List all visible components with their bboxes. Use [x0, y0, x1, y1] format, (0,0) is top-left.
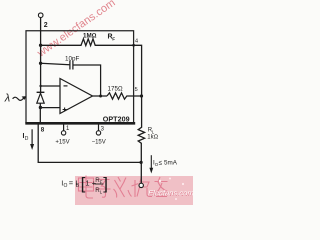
svg-text:λ: λ [4, 92, 10, 104]
svg-text:O: O [64, 183, 68, 189]
svg-text:1kΩ: 1kΩ [147, 135, 158, 141]
svg-text:−15V: −15V [92, 140, 106, 146]
svg-text:+15V: +15V [55, 140, 69, 146]
svg-text:8: 8 [41, 126, 45, 133]
svg-text:2: 2 [44, 22, 48, 29]
svg-text:F: F [112, 37, 115, 42]
svg-text:5: 5 [135, 87, 138, 93]
svg-text:1MΩ: 1MΩ [83, 33, 97, 40]
svg-text:175Ω: 175Ω [108, 85, 124, 92]
svg-text:≤ 5mA: ≤ 5mA [159, 160, 178, 167]
svg-text:4: 4 [135, 39, 138, 45]
svg-text:OPT209: OPT209 [103, 114, 130, 123]
svg-text:Elecfans.com: Elecfans.com [148, 189, 193, 198]
svg-text:D: D [25, 136, 29, 142]
svg-text:10pF: 10pF [65, 56, 80, 63]
svg-text:]: ] [103, 174, 108, 193]
